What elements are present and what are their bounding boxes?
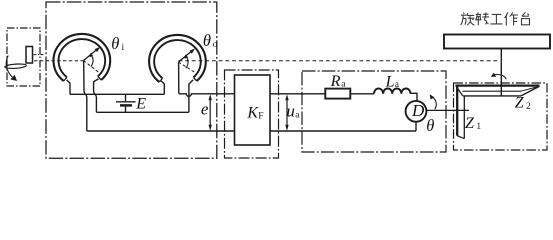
- handwheel lever disc: [5, 63, 27, 69]
- svg-text:θ: θ: [426, 116, 434, 135]
- node e measurement arrows: [209, 97, 211, 128]
- node ua measurement arrows: [286, 97, 288, 128]
- gear Z2 plate: [455, 84, 539, 86]
- svg-text:Z: Z: [515, 95, 525, 112]
- node feedback link pot2 to shaft (dashed): [179, 60, 500, 62]
- svg-text:u: u: [286, 101, 295, 120]
- battery E: [125, 94, 127, 101]
- inductor La: [374, 88, 411, 93]
- motor shaft: [426, 109, 469, 111]
- potentiometer P1 left terminal leg: [67, 80, 70, 94]
- svg-text:θ: θ: [111, 34, 119, 53]
- potentiometer P2 wiper arrow: [179, 51, 193, 62]
- wire bus2 ring bottom terminals: [96, 111, 188, 113]
- svg-text:1: 1: [476, 122, 481, 132]
- potentiometer P1 ring: [53, 34, 110, 81]
- label theta-i: [111, 34, 124, 53]
- svg-text:Z: Z: [465, 115, 475, 132]
- wire KF output bottom: [270, 130, 416, 132]
- svg-text:2: 2: [526, 102, 531, 112]
- svg-text:i: i: [122, 43, 125, 53]
- potentiometer P1 wiper arrow: [84, 49, 98, 60]
- resistor Ra: [325, 89, 350, 99]
- potentiometer P2 right terminal leg: [189, 80, 193, 112]
- svg-text:a: a: [295, 110, 300, 120]
- svg-text:D: D: [411, 101, 425, 120]
- potentiometer P1 right terminal leg with hop over bus: [94, 79, 99, 112]
- label KF gain: [246, 104, 263, 121]
- coupling link handle (dash-dot): [34, 54, 46, 56]
- char tai: [522, 12, 530, 24]
- label Ra: [330, 73, 347, 90]
- op-amp KF amplifier block: [235, 75, 271, 145]
- svg-text:R: R: [330, 73, 341, 90]
- handwheel input box (dash-dot border): [7, 28, 40, 86]
- handwheel rotation arrow: [6, 56, 12, 78]
- svg-text:e: e: [201, 99, 209, 118]
- label La: [385, 73, 400, 90]
- wire bottom from pot1 wiper to amplifier: [87, 130, 235, 132]
- node link handle to potentiometer P1 (dashed): [34, 60, 84, 62]
- handwheel knob: [26, 47, 33, 64]
- char gong: [490, 14, 502, 24]
- char xuan: [461, 13, 475, 26]
- wire pot2 wiper to amplifier with hop: [179, 94, 235, 97]
- potentiometer P2 ring: [149, 35, 206, 82]
- gear Z1 plate: [456, 86, 458, 136]
- wire KF output top: [270, 93, 325, 95]
- potentiometer P1 dashed reference lines: [84, 61, 99, 73]
- potentiometer P1 angle arc: [91, 54, 93, 67]
- svg-text:E: E: [135, 95, 146, 112]
- char zhuan: [475, 12, 489, 25]
- label ua armature voltage: [286, 101, 300, 120]
- motor shaft rotation arrow: [431, 96, 436, 109]
- amplifier section box (dash-dot border): [225, 70, 279, 158]
- rotating worktable platform: [444, 35, 550, 49]
- motor section box (dash-dot border): [302, 71, 446, 152]
- wire La to motor: [411, 93, 418, 101]
- worktable shaft rotation arrow: [493, 74, 506, 79]
- svg-text:o: o: [213, 40, 218, 50]
- svg-text:L: L: [385, 73, 395, 90]
- potentiometer P1 wiper lead with hop over bus: [84, 61, 87, 132]
- label rotating worktable title (hand-drawn CJK strokes): [461, 12, 530, 25]
- wire Ra to La: [350, 93, 374, 95]
- motor D: [406, 101, 427, 122]
- svg-text:θ: θ: [203, 31, 211, 50]
- label theta-o: [203, 31, 218, 50]
- potentiometer P2 angle arc: [186, 56, 188, 69]
- input section box (dash-dot border): [46, 2, 217, 158]
- potentiometer P2 wiper lead: [178, 62, 180, 94]
- svg-text:F: F: [258, 111, 263, 121]
- potentiometer P2 dashed reference line: [179, 62, 198, 74]
- label Z2 gear: [515, 95, 531, 112]
- wire motor bottom: [415, 122, 417, 131]
- worktable shaft: [500, 49, 502, 96]
- label Z1 gear: [465, 115, 481, 132]
- potentiometer P2 left terminal leg: [161, 81, 164, 94]
- gear section box (dash-dot border): [454, 83, 548, 150]
- char zuo: [505, 12, 518, 25]
- wire bus1 ring top terminals: [70, 93, 164, 95]
